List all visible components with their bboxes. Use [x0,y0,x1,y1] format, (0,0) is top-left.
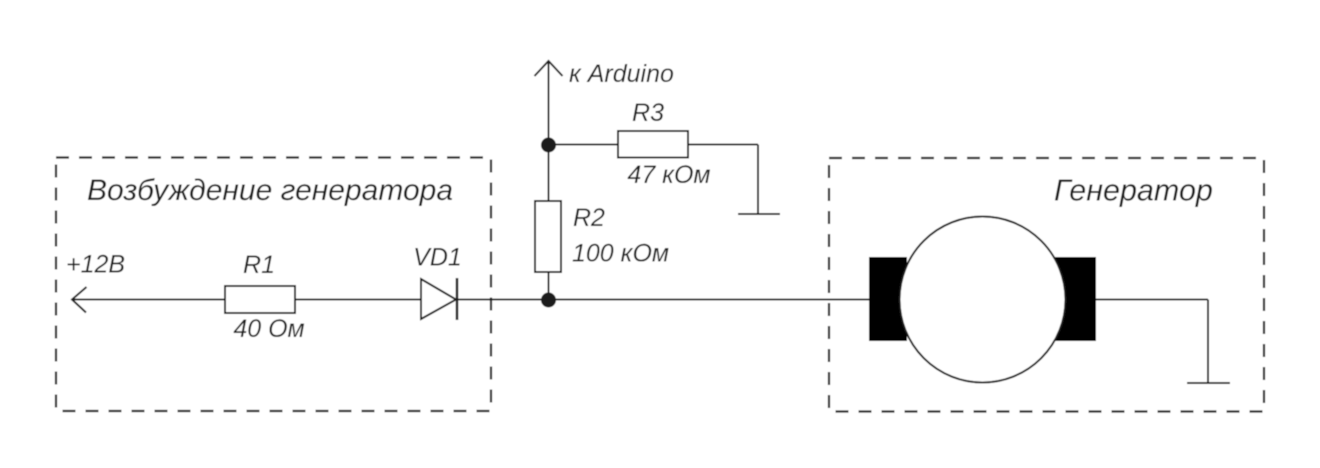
svg-text:47 кОм: 47 кОм [627,161,710,189]
svg-text:+12В: +12В [66,251,125,279]
svg-text:к Arduino: к Arduino [569,60,674,88]
svg-text:Генератор: Генератор [1054,174,1213,208]
svg-text:100 кОм: 100 кОм [572,240,669,268]
svg-text:R1: R1 [243,251,275,279]
svg-text:Возбуждение генератора: Возбуждение генератора [87,174,453,207]
svg-text:R2: R2 [573,204,605,232]
svg-text:R3: R3 [632,99,664,127]
svg-text:VD1: VD1 [413,244,462,272]
svg-text:40 Ом: 40 Ом [233,315,304,343]
